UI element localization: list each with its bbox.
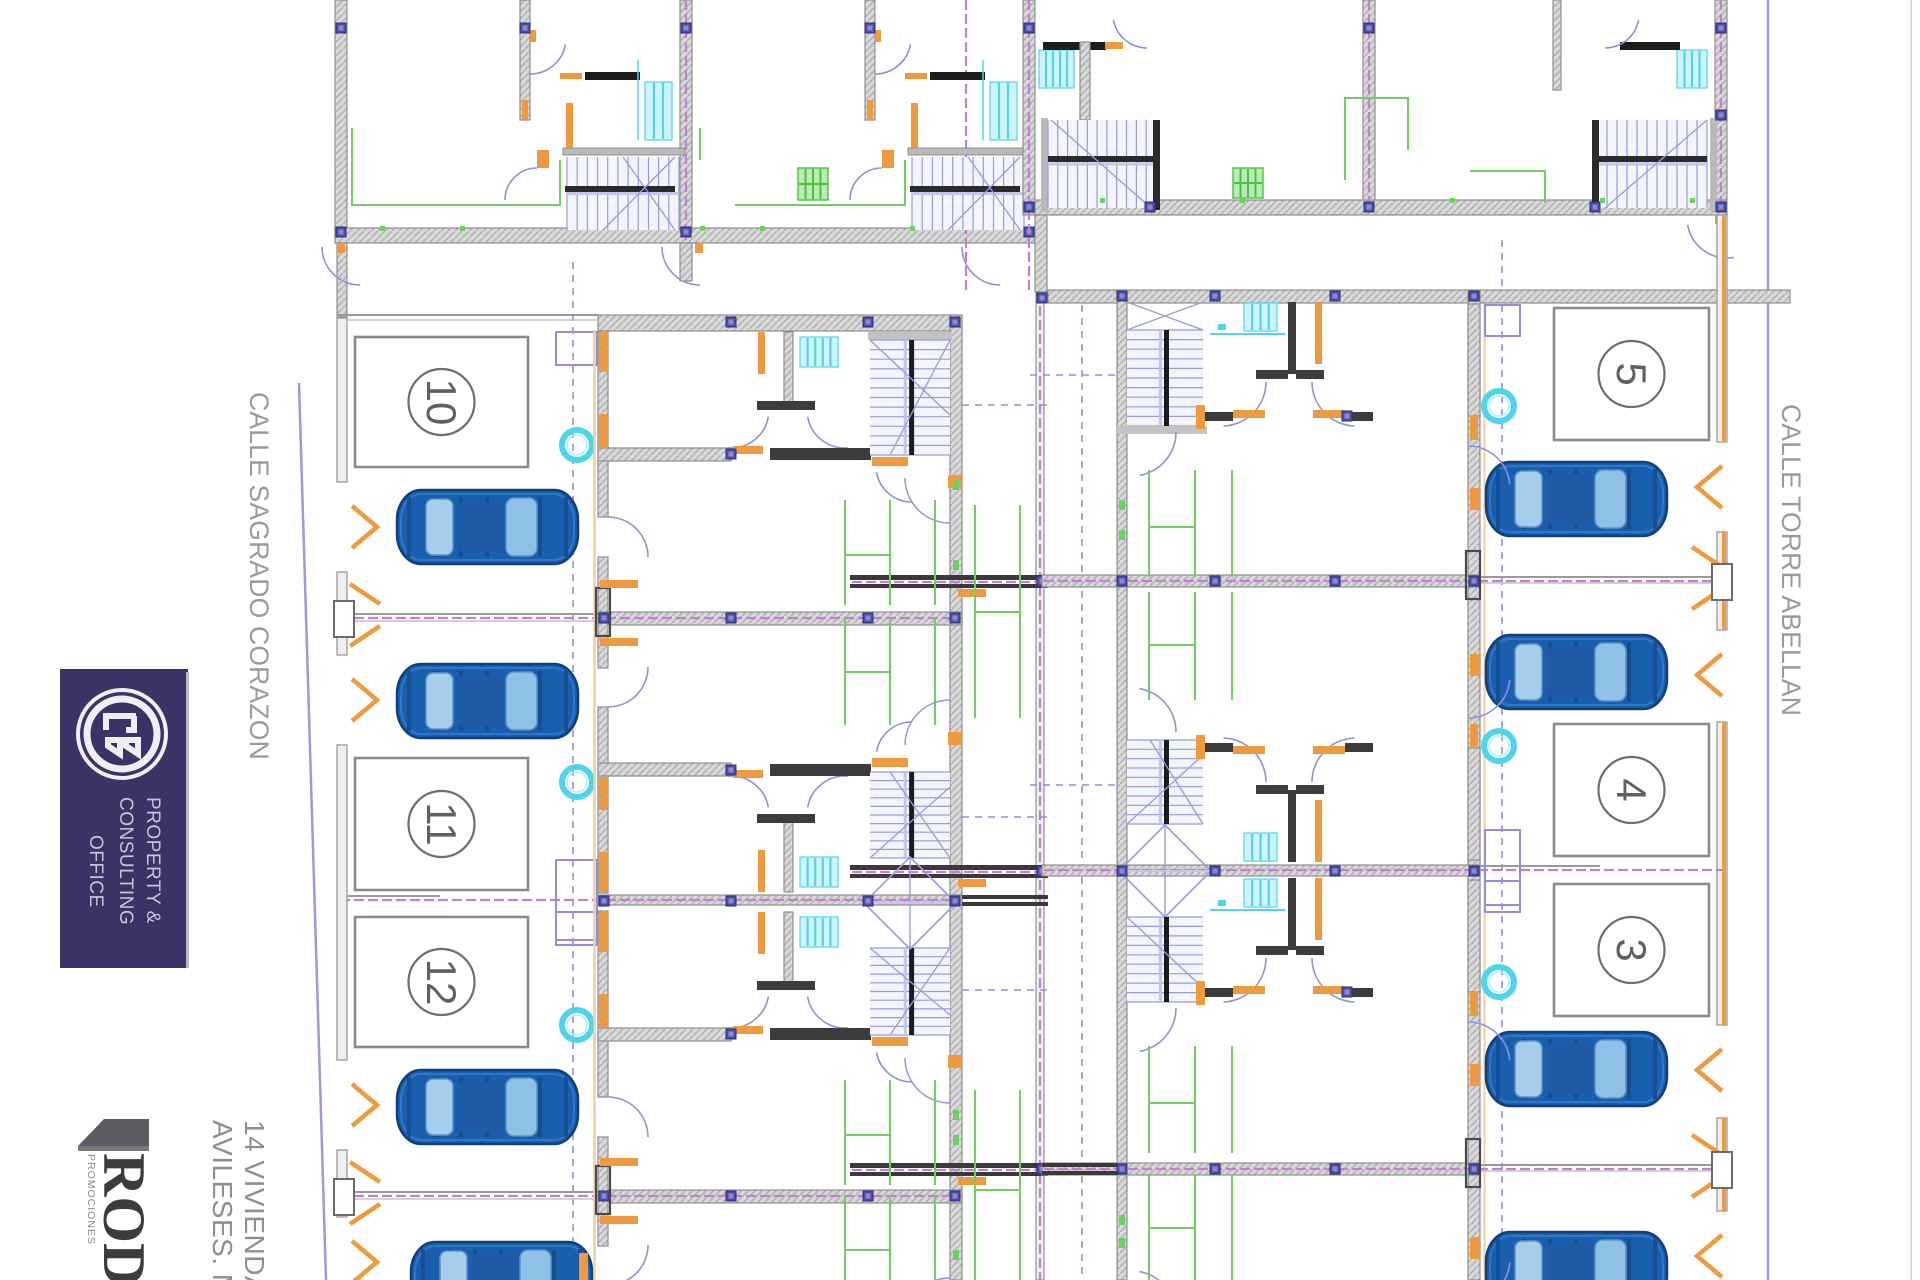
- svg-text:CALLE SAGRADO CORAZON: CALLE SAGRADO CORAZON: [244, 392, 274, 760]
- svg-text:14 VIVIENDAS: 14 VIVIENDAS: [239, 1120, 270, 1280]
- svg-text:ROD: ROD: [91, 1153, 157, 1280]
- svg-text:CALLE TORRE ABELLAN: CALLE TORRE ABELLAN: [1776, 404, 1806, 716]
- svg-text:11: 11: [418, 802, 465, 846]
- svg-text:OFFICE: OFFICE: [85, 835, 106, 908]
- svg-text:12: 12: [418, 959, 465, 1006]
- svg-text:10: 10: [418, 379, 465, 426]
- svg-text:PROPERTY &: PROPERTY &: [142, 797, 163, 924]
- svg-text:CONSULTING: CONSULTING: [115, 797, 136, 925]
- svg-text:PROMOCIONES: PROMOCIONES: [85, 1154, 97, 1245]
- svg-text:4: 4: [1608, 778, 1655, 801]
- svg-text:AVILESES. MU: AVILESES. MU: [207, 1120, 238, 1280]
- svg-text:3: 3: [1608, 938, 1655, 961]
- svg-text:5: 5: [1608, 362, 1655, 385]
